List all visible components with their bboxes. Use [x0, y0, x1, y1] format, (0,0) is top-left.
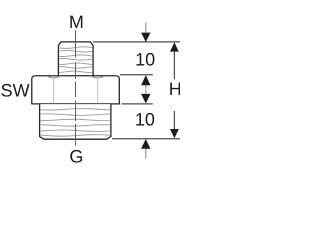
dim arrow B up: [145, 85, 147, 89]
bottom thread block G outline: [40, 104, 111, 139]
hex bottom edge: [31, 103, 120, 105]
top thread block M outline: [58, 42, 93, 76]
H dimension line with arrows: [173, 51, 175, 130]
top thread lines: [59, 47, 93, 73]
extension line part bottom edge: [112, 138, 180, 140]
svg-text:G: G: [69, 146, 83, 166]
svg-text:SW: SW: [1, 81, 30, 101]
dim arrow C down: [145, 90, 147, 94]
svg-text:H: H: [169, 79, 180, 99]
hex facet line right: [97, 78, 99, 103]
extension line hex top: [120, 74, 153, 76]
bottom thread lines: [40, 109, 110, 137]
svg-text:10: 10: [135, 49, 155, 69]
centerline: [75, 30, 77, 146]
svg-text:M: M: [69, 12, 84, 32]
hex nut outline SW: [32, 76, 120, 104]
hex chamfer arc right: [91, 76, 105, 78]
extension line hex bottom: [121, 103, 152, 105]
hex chamfer arc left: [46, 76, 60, 78]
hex facet line left: [53, 78, 55, 103]
extension line top (part top edge): [93, 41, 180, 43]
dim arrow A down (tail + head): [145, 23, 147, 33]
dim arrow D up: [145, 148, 147, 159]
svg-text:10: 10: [135, 110, 155, 130]
